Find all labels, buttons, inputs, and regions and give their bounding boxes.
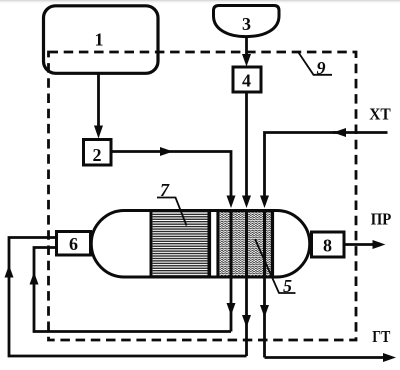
svg-text:4: 4 <box>242 71 251 91</box>
svg-text:7: 7 <box>160 180 170 200</box>
block 8 <box>312 232 345 257</box>
block 6 <box>57 232 91 256</box>
svg-text:3: 3 <box>242 14 251 34</box>
PR outlet arrow from 8 <box>344 240 386 249</box>
recycle pipe B: down from vessel, left, up into 6 (upper) <box>5 238 252 357</box>
callout 5 <box>255 239 296 296</box>
pipes passing through vessel <box>230 209 233 278</box>
wire 1 to 2 <box>94 74 103 139</box>
svg-text:ХТ: ХТ <box>369 105 391 124</box>
recycle pipe A: down from vessel, left, up into 6 (lower) <box>30 248 236 332</box>
pipe from 4: down into reactor <box>242 92 251 208</box>
dashed boundary box 9 <box>49 52 357 340</box>
svg-text:8: 8 <box>323 236 332 256</box>
GT outlet pipe: down from vessel then right <box>260 277 396 362</box>
svg-text:5: 5 <box>283 276 292 296</box>
svg-text:ГТ: ГТ <box>372 327 391 346</box>
separator grid line <box>216 211 219 278</box>
block 3 (feed hopper) <box>214 6 280 37</box>
bed 7 (horizontal hatch) <box>151 211 209 278</box>
reactor vessel (capsule) <box>91 211 310 278</box>
callout 9 leader <box>299 53 333 79</box>
wire 3 to 4 <box>242 37 251 67</box>
svg-text:1: 1 <box>95 30 104 50</box>
svg-text:2: 2 <box>93 145 102 165</box>
bed 5 (wavy hatch) <box>220 211 273 278</box>
callout 7 <box>157 180 187 226</box>
svg-text:ПР: ПР <box>371 210 392 229</box>
svg-text:9: 9 <box>317 58 326 78</box>
pipe from 2: right then down into reactor <box>111 147 236 208</box>
pipe XT inlet: from right, left then down into reactor <box>260 128 388 208</box>
block 2 <box>84 140 112 166</box>
svg-text:6: 6 <box>69 234 78 254</box>
block 1 <box>44 6 159 74</box>
block 4 <box>233 67 261 92</box>
